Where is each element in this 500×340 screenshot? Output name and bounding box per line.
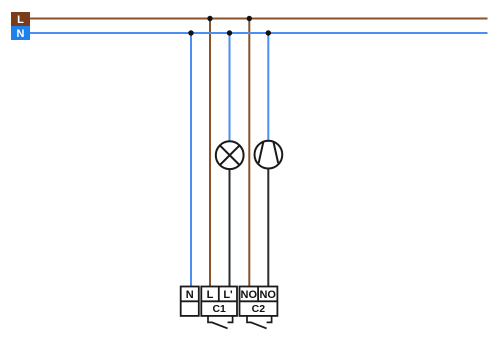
svg-text:C1: C1: [212, 303, 226, 315]
svg-text:L': L': [223, 289, 233, 301]
svg-text:NO: NO: [259, 289, 276, 301]
svg-text:L: L: [207, 289, 214, 301]
svg-text:C2: C2: [252, 303, 266, 315]
svg-text:N: N: [17, 28, 25, 40]
svg-text:L: L: [17, 14, 24, 26]
svg-text:N: N: [186, 289, 194, 301]
svg-text:NO: NO: [241, 289, 258, 301]
